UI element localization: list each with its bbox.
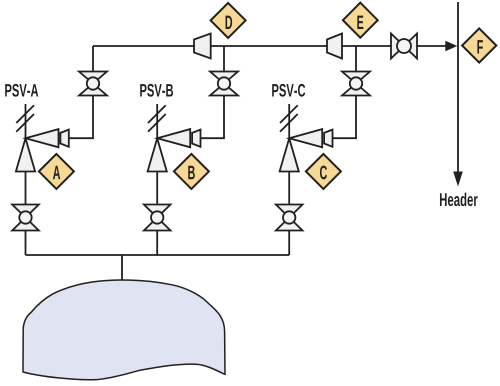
wire: drop from valve V5 to PSV-B outlet <box>201 96 225 139</box>
label: PSV-A <box>5 84 38 97</box>
vessel (protected equipment) <box>23 280 225 380</box>
label: PSV-C <box>272 84 305 97</box>
wire: PSV-A inlet drop <box>25 172 27 205</box>
expander (reducer) upstream of node E <box>327 34 342 59</box>
block valve V7 (horizontal, upstream of header) <box>391 34 417 59</box>
wire: manifold header <box>26 254 290 256</box>
relief valve PSV-A <box>16 104 69 172</box>
block valve V3 (inlet of PSV-C) <box>276 205 303 231</box>
block valve V4 (outlet of PSV-A) <box>79 72 107 96</box>
wire: drop from valve V6 to PSV-C outlet <box>333 96 357 139</box>
wire: drop from valve V4 to PSV-A outlet <box>69 96 93 139</box>
label: PSV-B <box>140 84 173 97</box>
wire: manifold drop from valve V2 <box>156 231 158 256</box>
wire: segment from block valve V7 to flow arrow <box>417 45 447 47</box>
wire: top header line segment from expander D to expander E <box>211 45 327 47</box>
wire: riser from valve V6 up to top line <box>355 46 357 72</box>
node label diamond E <box>343 3 378 38</box>
wire: manifold drop from valve V3 <box>288 231 290 256</box>
wire: top header line segment from valve-A riser to expander D <box>93 45 194 47</box>
wire: manifold drop from valve V1 <box>25 231 27 256</box>
node label diamond F <box>462 28 496 62</box>
block valve V1 (inlet of PSV-A) <box>12 205 39 231</box>
wire: riser from valve V4 up to top line <box>92 46 94 72</box>
relief valve PSV-C <box>280 104 333 172</box>
wire: top header line segment from expander E to block valve V7 <box>342 45 391 47</box>
node label diamond D <box>211 3 246 38</box>
wire: header vertical line <box>457 2 459 173</box>
wire: vessel nozzle stub <box>121 255 123 281</box>
arrowhead: header down arrow <box>453 172 463 187</box>
wire: PSV-B inlet drop <box>156 172 158 205</box>
label: Header <box>440 193 478 207</box>
expander (reducer) upstream of node D <box>194 34 211 59</box>
node label diamond C <box>306 154 341 189</box>
wire: PSV-C inlet drop <box>288 172 290 205</box>
flow arrow into header <box>445 41 457 52</box>
node label diamond A <box>39 154 74 189</box>
node label diamond B <box>174 154 209 189</box>
block valve V5 (outlet of PSV-B) <box>210 72 238 96</box>
relief valve PSV-B <box>148 104 201 172</box>
wire: riser from valve V5 up to top line <box>223 46 225 72</box>
block valve V6 (outlet of PSV-C) <box>342 72 370 96</box>
block valve V2 (inlet of PSV-B) <box>144 205 171 231</box>
